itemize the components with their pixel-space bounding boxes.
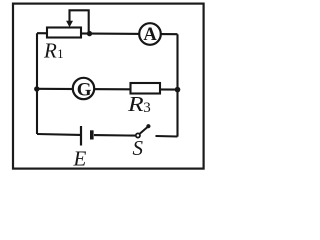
border frame <box>13 4 204 169</box>
node: right junction <box>175 87 181 93</box>
resistor R3 <box>131 83 161 94</box>
ammeter A <box>139 23 161 45</box>
svg-text:E: E <box>73 147 87 171</box>
svg-text:G: G <box>77 80 92 101</box>
wire: slider tap of R1 <box>70 10 89 32</box>
wire: top branch through R1 and ammeter <box>37 33 178 34</box>
node: junction of slider with top wire <box>87 31 92 36</box>
svg-text:R: R <box>127 93 144 116</box>
wire: bottom branch switch to corner <box>156 135 178 138</box>
node: left junction <box>34 86 39 91</box>
slider arrowhead <box>66 21 73 27</box>
svg-text:S: S <box>133 136 144 160</box>
switch S: pivot <box>136 133 140 137</box>
wire: bottom branch left of battery <box>37 133 81 136</box>
wire: middle branch through G and R3 <box>37 88 178 91</box>
svg-text:3: 3 <box>143 100 151 116</box>
switch S: lever <box>140 127 148 134</box>
svg-text:A: A <box>143 25 157 45</box>
wire: right vertical branch <box>176 34 178 136</box>
wire: bottom branch battery to switch <box>94 134 136 137</box>
svg-text:1: 1 <box>57 47 63 61</box>
svg-text:R: R <box>43 38 57 62</box>
switch S: lever tip dot <box>146 124 150 128</box>
resistor R1 (rheostat body) <box>47 28 81 38</box>
wire: left vertical branch <box>36 33 38 134</box>
battery E: long plate <box>80 126 82 146</box>
galvanometer G <box>73 78 94 99</box>
battery E: short thick plate <box>90 130 94 139</box>
